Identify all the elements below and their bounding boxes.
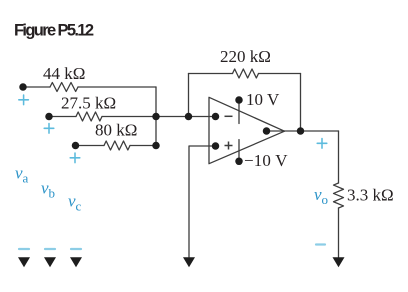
node summing junction b — [152, 113, 160, 121]
wire input c right segment — [130, 145, 156, 147]
ground arrow output — [333, 257, 345, 267]
wire feedback right vertical — [300, 74, 302, 132]
polarity minus output — [316, 243, 325, 245]
wire input b left segment — [49, 116, 76, 118]
negative supply lead — [238, 140, 240, 162]
wire feedback top left — [189, 73, 233, 75]
op-amp plus sign — [225, 142, 233, 150]
wire input a left segment — [23, 86, 50, 88]
wire load top — [338, 131, 340, 183]
op-amp minus sign — [225, 115, 233, 117]
polarity minus a — [19, 248, 29, 250]
wire noninverting input to ground — [189, 146, 215, 257]
wire input b right segment — [102, 116, 156, 118]
ground arrow a — [18, 257, 30, 267]
resistor 3.3 kOhm — [334, 183, 344, 208]
node feedback tap — [185, 113, 193, 121]
wire output — [285, 130, 339, 132]
svg-text:Figure P5.12: Figure P5.12 — [14, 22, 94, 40]
polarity plus output — [317, 139, 327, 149]
resistor 44 kOhm — [50, 83, 78, 92]
svg-text:80 kΩ: 80 kΩ — [95, 121, 137, 140]
node terminal c — [72, 142, 80, 150]
polarity plus a — [19, 95, 29, 105]
svg-text:−10 V: −10 V — [244, 151, 288, 170]
wire feedback left vertical — [188, 74, 190, 117]
node terminal b — [45, 113, 53, 121]
wire load bottom — [338, 208, 340, 257]
wire input c left segment — [76, 145, 105, 147]
pin inverting input — [212, 113, 220, 121]
pin negative supply — [235, 158, 243, 166]
polarity plus c — [70, 153, 80, 163]
polarity minus b — [45, 248, 55, 250]
svg-text:44 kΩ: 44 kΩ — [43, 64, 85, 83]
polarity minus c — [71, 248, 81, 250]
ground arrow center — [183, 257, 195, 267]
ground arrow b — [44, 257, 56, 267]
node terminal a — [19, 83, 27, 91]
svg-text:10 V: 10 V — [246, 90, 280, 109]
pin positive supply — [235, 96, 243, 104]
resistor 220 kOhm — [233, 69, 259, 78]
resistor 27.5 kOhm — [76, 112, 102, 121]
node summing junction c — [152, 142, 160, 150]
svg-text:vo: vo — [314, 185, 328, 207]
wire output stub — [267, 130, 285, 132]
op-amp U1 — [209, 97, 285, 163]
pin output — [263, 127, 271, 135]
wire inverting input — [156, 116, 215, 118]
pin noninverting input — [212, 142, 220, 150]
resistor 80 kOhm — [104, 141, 130, 150]
wire input a right segment — [78, 86, 156, 88]
node output — [297, 127, 305, 135]
wire summing vertical — [155, 87, 157, 146]
polarity plus b — [44, 124, 54, 134]
svg-text:vb: vb — [41, 179, 55, 201]
svg-text:vc: vc — [68, 192, 82, 214]
wire feedback top right — [259, 73, 301, 75]
svg-text:3.3 kΩ: 3.3 kΩ — [347, 186, 394, 205]
ground arrow c — [70, 257, 82, 267]
svg-text:va: va — [15, 164, 29, 186]
positive supply lead — [238, 100, 240, 124]
svg-text:27.5 kΩ: 27.5 kΩ — [61, 94, 116, 113]
svg-text:220 kΩ: 220 kΩ — [220, 47, 271, 66]
